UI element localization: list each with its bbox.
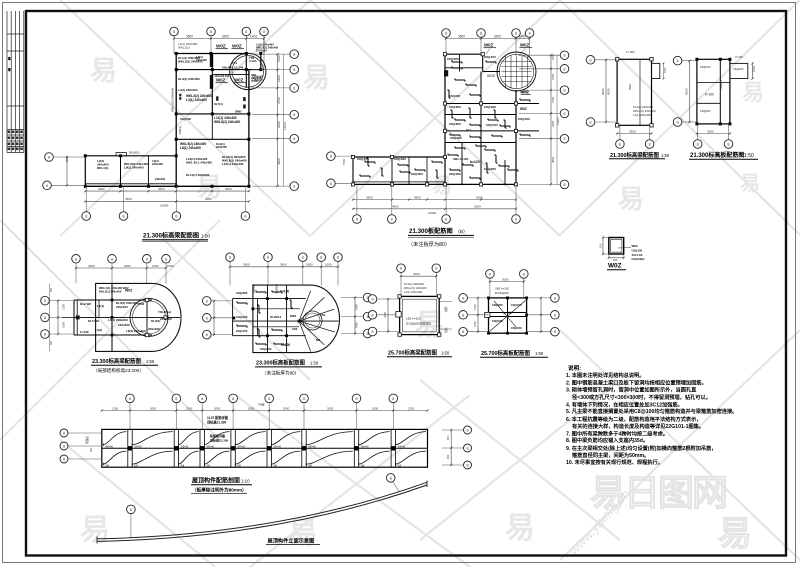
svg-text:易: 易	[740, 172, 760, 195]
svg-text:3600: 3600	[243, 263, 250, 267]
svg-text:21.300板配筋图: 21.300板配筋图	[409, 227, 453, 235]
svg-text:W0Z: W0Z	[234, 78, 244, 83]
svg-text:DKL8(3): DKL8(3)	[129, 151, 139, 155]
svg-text:L8(1) 240x400: L8(1) 240x400	[180, 146, 201, 150]
svg-text:C8@200: C8@200	[484, 167, 496, 171]
svg-text:说明:: 说明:	[568, 364, 581, 372]
svg-text:易: 易	[618, 184, 644, 214]
svg-text:W0Z: W0Z	[520, 107, 527, 111]
svg-text:W0Z: W0Z	[520, 90, 529, 94]
svg-text:C8@180: C8@180	[394, 157, 406, 161]
svg-text:2400: 2400	[551, 120, 555, 127]
svg-text:1800: 1800	[277, 75, 281, 82]
svg-text:有关的连接大样，构造长度及构造等详见22G101-1图集。: 有关的连接大样，构造长度及构造等详见22G101-1图集。	[572, 422, 704, 430]
svg-text:1:50: 1:50	[146, 359, 155, 364]
svg-text:b=120: b=120	[470, 160, 480, 164]
svg-text:C8@150: C8@150	[700, 65, 711, 69]
svg-text:L1(1): L1(1)	[97, 304, 104, 308]
svg-text:1500: 1500	[664, 67, 667, 73]
svg-text:易: 易	[718, 515, 752, 553]
svg-text:易: 易	[432, 174, 452, 197]
svg-text:3000: 3000	[476, 195, 483, 199]
svg-text:h=100: h=100	[281, 343, 290, 347]
svg-text:B:C8@200双层双向: B:C8@200双层双向	[406, 322, 431, 326]
svg-text:（未注板厚为80）: （未注板厚为80）	[408, 240, 450, 248]
svg-text:23.300标高梁配筋图: 23.300标高梁配筋图	[92, 357, 141, 365]
svg-text:1100: 1100	[112, 406, 118, 410]
svg-text:1500: 1500	[325, 263, 332, 267]
svg-text:1400: 1400	[519, 34, 526, 38]
svg-text:1. 本图未注明处详见结构总说明。: 1. 本图未注明处详见结构总说明。	[566, 371, 644, 379]
svg-text:2000: 2000	[214, 406, 221, 410]
svg-text:易: 易	[505, 512, 535, 545]
svg-text:240x400: 240x400	[196, 58, 207, 62]
svg-text:C8@100: C8@100	[632, 249, 643, 253]
svg-text:1500: 1500	[277, 55, 281, 62]
svg-text:2000: 2000	[150, 406, 157, 410]
svg-text:易: 易	[742, 80, 764, 105]
svg-text:相同: 相同	[444, 327, 448, 333]
svg-text:易: 易	[303, 63, 330, 93]
svg-text:2000: 2000	[248, 406, 255, 410]
svg-text:C8@150: C8@150	[357, 157, 369, 161]
svg-text:M2: M2	[316, 338, 320, 342]
svg-text:W0Z: W0Z	[125, 289, 132, 293]
svg-text:Fi.TE0: Fi.TE0	[626, 50, 635, 54]
svg-text:2M65: 2M65	[235, 110, 242, 114]
svg-text:2000: 2000	[283, 406, 290, 410]
svg-text:3500: 3500	[629, 129, 636, 133]
svg-text:W8=80: W8=80	[105, 446, 113, 449]
svg-text:h=100: h=100	[280, 290, 289, 294]
svg-text:3600: 3600	[458, 34, 465, 38]
svg-text:7#轴: 7#轴	[258, 402, 264, 407]
svg-text:L4(1): L4(1)	[95, 328, 102, 332]
svg-text:2200: 2200	[186, 406, 193, 410]
svg-text:C8@150: C8@150	[719, 79, 723, 90]
svg-text:21.300标高梁配筋图: 21.300标高梁配筋图	[143, 232, 199, 240]
svg-text:900: 900	[89, 447, 93, 452]
svg-text:1:50: 1:50	[535, 351, 544, 356]
svg-text:W0Z: W0Z	[484, 43, 494, 48]
svg-text:C8@200: C8@200	[449, 105, 461, 109]
svg-text:C8@200: C8@200	[447, 57, 459, 61]
svg-text:1800: 1800	[62, 322, 66, 328]
svg-text:4500: 4500	[125, 197, 132, 201]
svg-text:WKL1(1): WKL1(1)	[178, 46, 190, 50]
svg-text:YKL: YKL	[320, 313, 326, 317]
svg-text:3600: 3600	[280, 263, 287, 267]
svg-text:4500: 4500	[158, 187, 165, 191]
svg-text:XL1: XL1	[466, 128, 472, 132]
svg-text:C8@150: C8@150	[486, 123, 498, 127]
svg-text:C8@200: C8@200	[511, 326, 522, 330]
svg-text:KL2 W2: KL2 W2	[80, 302, 91, 306]
svg-text:300: 300	[50, 340, 53, 345]
svg-text:2700: 2700	[277, 97, 281, 104]
svg-text:WKL6(2) 240x400: WKL6(2) 240x400	[214, 120, 240, 124]
svg-text:240x500: 240x500	[216, 145, 227, 149]
svg-text:KL7(1): KL7(1)	[214, 102, 223, 106]
svg-text:900: 900	[446, 454, 450, 459]
svg-text:1500: 1500	[473, 321, 477, 327]
svg-text:900: 900	[446, 435, 450, 440]
svg-text:C8@150: C8@150	[511, 303, 522, 307]
svg-text:WKL10(1) 240x600: WKL10(1) 240x600	[171, 87, 175, 112]
svg-text:（未注板厚为80）: （未注板厚为80）	[262, 370, 299, 377]
svg-text:C8@200: C8@200	[411, 172, 423, 176]
svg-text:2000: 2000	[372, 406, 379, 410]
svg-text:C8@200: C8@200	[449, 172, 461, 176]
svg-text:易: 易	[80, 514, 110, 547]
svg-text:（B）: （B）	[455, 229, 468, 235]
svg-text:（板厚除注明外为80mm）: （板厚除注明外为80mm）	[192, 487, 247, 494]
svg-text:C8@200: C8@200	[260, 347, 272, 351]
svg-text:2000: 2000	[327, 406, 334, 410]
svg-text:23.300标高板配筋图: 23.300标高板配筋图	[256, 359, 305, 367]
svg-text:W8=80: W8=80	[206, 446, 214, 449]
svg-text:21.300标高梁配筋图: 21.300标高梁配筋图	[610, 151, 659, 159]
svg-text:顶标高21.300: 顶标高21.300	[207, 420, 227, 425]
svg-text:C8@200: C8@200	[236, 315, 248, 319]
svg-text:LB1 h=120: LB1 h=120	[406, 317, 421, 321]
svg-text:1400: 1400	[250, 34, 257, 38]
svg-text:KL11(1) 300x600: KL11(1) 300x600	[186, 173, 210, 177]
svg-text:W0Z: W0Z	[487, 74, 496, 78]
svg-text:1L07 配筋详图: 1L07 配筋详图	[207, 415, 228, 420]
svg-text:1:10: 1:10	[241, 479, 250, 484]
svg-text:3500: 3500	[707, 129, 714, 133]
svg-text:W8=80: W8=80	[181, 446, 189, 449]
svg-text:100: 100	[599, 243, 603, 248]
svg-text:C8@180: C8@180	[492, 319, 503, 323]
svg-text:1500: 1500	[551, 53, 555, 60]
svg-text:C8@150: C8@150	[236, 329, 248, 333]
svg-text:3000: 3000	[494, 34, 501, 38]
svg-text:1:50: 1:50	[744, 153, 754, 159]
svg-text:h=100: h=100	[249, 59, 257, 63]
svg-text:3000: 3000	[225, 187, 232, 191]
svg-text:240x400: 240x400	[160, 317, 172, 321]
svg-text:2. 图中钢筋混凝土梁口及板下留洞均按相应位置预埋加固筋。: 2. 图中钢筋混凝土梁口及板下留洞均按相应位置预埋加固筋。	[566, 378, 707, 386]
svg-text:3000: 3000	[502, 277, 509, 281]
svg-text:4800: 4800	[277, 158, 281, 165]
svg-text:XB3 h=100: XB3 h=100	[495, 287, 509, 291]
svg-text:L1(1) 240x400: L1(1) 240x400	[633, 113, 651, 117]
svg-text:C8@180: C8@180	[484, 105, 496, 109]
svg-text:10. 未尽事宜按有关现行规范、规程执行。: 10. 未尽事宜按有关现行规范、规程执行。	[566, 458, 663, 466]
svg-text:C8@200: C8@200	[492, 303, 503, 307]
svg-text:3600: 3600	[88, 264, 95, 268]
svg-text:C8@200: C8@200	[733, 67, 744, 71]
svg-text:3000: 3000	[474, 205, 481, 209]
svg-text:11100: 11100	[283, 122, 287, 130]
svg-text:L5(1) 240x400: L5(1) 240x400	[108, 318, 128, 322]
svg-text:W0Z: W0Z	[608, 263, 622, 270]
svg-text:b=100: b=100	[503, 311, 512, 315]
svg-text:易: 易	[415, 309, 445, 342]
svg-text:h=100: h=100	[251, 79, 259, 83]
svg-text:2100: 2100	[62, 304, 66, 310]
svg-text:5. 凡主梁不能直接搁置处采用C8@100均匀箍筋构造并与梁: 5. 凡主梁不能直接搁置处采用C8@100均匀箍筋构造并与梁箍筋加密连接。	[566, 407, 737, 415]
svg-text:W8=80: W8=80	[273, 446, 281, 449]
svg-text:C8@200: C8@200	[449, 122, 461, 126]
svg-text:10800: 10800	[160, 204, 169, 208]
svg-text:1500: 1500	[167, 264, 174, 268]
svg-text:3000: 3000	[413, 272, 420, 276]
svg-text:L10(1) 240x400: L10(1) 240x400	[222, 162, 244, 166]
svg-text:DKL2(1) 240x400: DKL2(1) 240x400	[99, 289, 122, 293]
svg-text:W03: W03	[290, 314, 296, 318]
svg-text:240x400: 240x400	[155, 177, 166, 181]
svg-text:240x400 365: 240x400 365	[215, 75, 230, 78]
svg-text:4. 有墙体下列情况，在相应位置处加3C12加强筋。: 4. 有墙体下列情况，在相应位置处加3C12加强筋。	[566, 401, 683, 409]
svg-text:C8@150: C8@150	[484, 55, 496, 59]
svg-text:XB1 h=100: XB1 h=100	[453, 157, 469, 161]
svg-text:1:50: 1:50	[661, 153, 670, 158]
svg-text:W8=80: W8=80	[134, 446, 142, 449]
svg-text:9000: 9000	[601, 88, 605, 95]
svg-text:1500: 1500	[473, 304, 477, 310]
svg-text:9000: 9000	[685, 88, 689, 95]
svg-text:2400: 2400	[277, 121, 281, 128]
svg-text:25.700标高板配筋图: 25.700标高板配筋图	[481, 349, 530, 357]
svg-text:2100: 2100	[551, 73, 555, 80]
svg-text:4500: 4500	[392, 205, 399, 209]
svg-text:W02: W02	[632, 244, 639, 248]
svg-text:11100: 11100	[556, 117, 560, 125]
svg-text:h=120: h=120	[80, 330, 89, 334]
svg-text:3600: 3600	[124, 264, 131, 268]
svg-text:10800: 10800	[428, 211, 437, 215]
svg-text:1500: 1500	[65, 156, 69, 163]
svg-text:C8@100(2): C8@100(2)	[632, 258, 645, 261]
svg-text:240x400: 240x400	[148, 327, 160, 331]
svg-text:箍筋直径同主梁，间距为50mm。: 箍筋直径同主梁，间距为50mm。	[572, 451, 649, 459]
svg-text:3600: 3600	[186, 34, 193, 38]
svg-text:4500: 4500	[414, 195, 421, 199]
svg-text:W8=80: W8=80	[308, 446, 316, 449]
svg-text:1:50: 1:50	[201, 234, 210, 239]
svg-text:KL5 W2: KL5 W2	[88, 319, 99, 323]
svg-text:DKL1(1): DKL1(1)	[97, 166, 109, 170]
svg-text:W0Z: W0Z	[216, 44, 226, 49]
svg-text:屋顶构件立面示意图: 屋顶构件立面示意图	[268, 537, 315, 545]
svg-text:L3(1) 240x400: L3(1) 240x400	[186, 98, 207, 102]
svg-text:3. 砌体墙预留孔洞时，留洞中位置如图所示外，当圆孔直: 3. 砌体墙预留孔洞时，留洞中位置如图所示外，当圆孔直	[566, 386, 697, 394]
svg-text:C8@150: C8@150	[276, 283, 279, 294]
svg-text:1800: 1800	[355, 304, 359, 310]
svg-text:C8@200: C8@200	[253, 283, 256, 294]
svg-text:W8=80: W8=80	[237, 446, 245, 449]
svg-text:1500: 1500	[342, 158, 346, 165]
svg-text:（局部结构标高23.200）: （局部结构标高23.200）	[93, 367, 144, 374]
svg-text:W0Z: W0Z	[232, 44, 242, 49]
svg-text:1:50: 1:50	[310, 361, 319, 366]
svg-text:21.300标高板配筋图: 21.300标高板配筋图	[690, 151, 744, 159]
svg-text:C8@200: C8@200	[180, 117, 191, 121]
svg-text:8. 图中梁负筋均应锚入支座内35d。: 8. 图中梁负筋均应锚入支座内35d。	[566, 436, 648, 444]
svg-text:1500: 1500	[152, 264, 159, 268]
svg-text:h=150: h=150	[735, 55, 743, 59]
svg-text:相同: 相同	[444, 306, 448, 312]
svg-text:C8@200: C8@200	[700, 109, 711, 113]
svg-text:L8(1) 240x400: L8(1) 240x400	[126, 329, 146, 333]
svg-text:W8=80: W8=80	[361, 446, 369, 449]
svg-text:4800: 4800	[551, 156, 555, 163]
svg-text:C8@200: C8@200	[450, 136, 462, 140]
svg-text:WKL-KL1 240x400: WKL-KL1 240x400	[186, 161, 212, 165]
svg-text:TL60x60: TL60x60	[256, 49, 267, 53]
svg-text:300: 300	[50, 287, 53, 292]
svg-text:W0Z: W0Z	[520, 43, 530, 48]
svg-text:4C14 4/2: 4C14 4/2	[632, 253, 643, 257]
svg-text:7. 图中所有梁跨数多于4跨时均按二级考虑。: 7. 图中所有梁跨数多于4跨时均按二级考虑。	[566, 429, 668, 437]
svg-text:240x400: 240x400	[152, 162, 163, 166]
svg-text:W03: W03	[138, 302, 145, 306]
svg-text:W8=80: W8=80	[398, 446, 406, 449]
svg-text:W0Z: W0Z	[216, 78, 226, 83]
svg-text:2200: 2200	[408, 406, 415, 410]
svg-text:顶标高21.300: 顶标高21.300	[210, 438, 229, 443]
svg-text:易: 易	[90, 56, 117, 86]
svg-text:TL1: TL1	[232, 61, 237, 65]
svg-text:2700: 2700	[551, 96, 555, 103]
svg-text:WKL: WKL	[628, 83, 632, 90]
svg-text:C8@200: C8@200	[236, 291, 248, 295]
svg-text:240x400: 240x400	[118, 323, 130, 327]
svg-text:1800: 1800	[306, 263, 313, 267]
svg-text:3600: 3600	[98, 187, 105, 191]
svg-text:3000: 3000	[222, 34, 229, 38]
svg-text:25.700标高梁配筋图: 25.700标高梁配筋图	[388, 349, 437, 357]
svg-text:KL9(1): KL9(1)	[151, 319, 160, 323]
svg-text:B:C8@200: B:C8@200	[495, 291, 509, 295]
svg-text:YKL6(1a): YKL6(1a)	[158, 310, 171, 314]
svg-text:KL6(1): KL6(1)	[178, 126, 182, 134]
svg-text:L1(1) 240x400: L1(1) 240x400	[404, 290, 422, 294]
svg-text:L9(1) 240x400: L9(1) 240x400	[124, 166, 144, 170]
svg-text:3000: 3000	[205, 197, 212, 201]
svg-text:KL200.3: KL200.3	[270, 315, 281, 319]
svg-text:6. 本工程抗震等级为二级，配筋构造用平法结构方式表示，: 6. 本工程抗震等级为二级，配筋构造用平法结构方式表示，	[566, 415, 701, 423]
svg-text:3600: 3600	[366, 195, 373, 199]
svg-text:C80: C80	[292, 327, 298, 331]
svg-text:9. 在主次梁相交处(除上述)均匀设置(附)加横向箍筋2根附: 9. 在主次梁相交处(除上述)均匀设置(附)加横向箍筋2根附加吊筋，	[566, 444, 716, 452]
svg-text:C8@200: C8@200	[449, 94, 460, 98]
svg-text:屋顶构件配筋剖面: 屋顶构件配筋剖面	[192, 477, 240, 485]
svg-text:KL3(1) 240x500: KL3(1) 240x500	[178, 77, 200, 81]
svg-text:L4(1) 240x400: L4(1) 240x400	[178, 88, 198, 92]
svg-text:C8@150: C8@150	[518, 117, 530, 121]
svg-text:240x400: 240x400	[116, 305, 128, 309]
svg-text:b=100: b=100	[705, 93, 714, 97]
svg-text:屋面板: 屋面板	[85, 436, 89, 444]
svg-text:100: 100	[613, 258, 618, 262]
svg-text:1800: 1800	[355, 322, 359, 328]
svg-text:1:50: 1:50	[441, 351, 450, 356]
svg-text:9000: 9000	[607, 88, 611, 95]
svg-text:1500: 1500	[752, 65, 756, 72]
svg-text:径<300或方孔尺寸<300×300时，不得留洞预埋，钻孔可: 径<300或方孔尺寸<300×300时，不得留洞预埋，钻孔可以。	[572, 393, 711, 401]
